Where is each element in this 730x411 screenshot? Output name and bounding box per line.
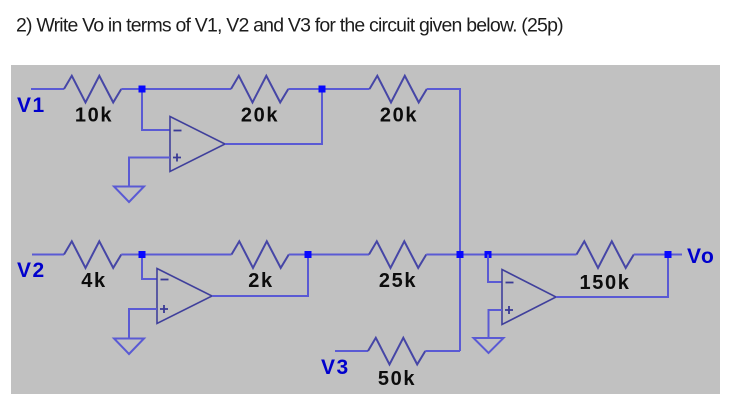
op-amp U3	[502, 270, 556, 325]
wire vertical bus down	[459, 88, 461, 351]
U3 plus sign	[505, 306, 513, 314]
wire U3 inverting input	[488, 255, 502, 283]
ground G3	[474, 338, 504, 353]
node2b junction	[305, 251, 312, 258]
resistor R2 20k feedback	[231, 76, 288, 103]
U2 minus sign	[161, 279, 169, 281]
wire R7 to output node	[634, 254, 682, 256]
node1b junction	[139, 251, 146, 258]
wire U2 output to node2b	[212, 255, 308, 297]
op-amp U1	[170, 117, 225, 172]
wire U1 non-inverting to ground	[129, 158, 170, 187]
node2a junction	[319, 86, 326, 93]
svg-text:25k: 25k	[379, 270, 417, 292]
node B feedback junction	[485, 251, 492, 258]
resistor R7 150k feedback	[577, 241, 634, 268]
svg-text:20k: 20k	[380, 105, 418, 127]
wire U2 non-inverting to ground	[129, 309, 157, 339]
wire V3 lead	[335, 350, 368, 352]
svg-text:2) Write Vo in terms of V1, V2: 2) Write Vo in terms of V1, V2 and V3 fo…	[16, 15, 563, 37]
node1a junction	[139, 86, 146, 93]
wire R6 to summing node	[426, 254, 576, 256]
svg-text:V3: V3	[321, 356, 350, 379]
U1 minus sign	[174, 130, 182, 132]
svg-text:V2: V2	[17, 259, 46, 282]
wire R1 to node1a	[121, 88, 231, 90]
wire U1 inverting input	[142, 89, 170, 130]
wire node2a span	[288, 88, 369, 90]
wire V1 lead	[31, 88, 64, 90]
wire R4 to node1b	[121, 254, 231, 256]
wire node2b span	[289, 254, 369, 256]
wire V2 lead	[32, 254, 64, 256]
ground G2	[114, 339, 144, 355]
wire U3 output to node Vo	[556, 255, 668, 298]
svg-text:Vo: Vo	[687, 245, 715, 268]
resistor R5 2k feedback	[232, 241, 289, 268]
svg-text:50k: 50k	[378, 368, 416, 390]
svg-text:2k: 2k	[248, 270, 273, 292]
wire U2 inverting input	[142, 255, 157, 280]
resistor R4 4k	[64, 241, 121, 268]
U1 plus sign	[173, 154, 181, 162]
svg-text:V1: V1	[17, 94, 46, 117]
resistor R3 20k	[370, 76, 427, 103]
svg-text:4k: 4k	[81, 270, 106, 292]
wire R8 to vertical bus	[425, 350, 460, 352]
op-amp U2	[157, 269, 212, 324]
svg-text:20k: 20k	[241, 105, 279, 127]
resistor R6 25k	[369, 241, 426, 268]
U2 plus sign	[160, 305, 168, 313]
wire R3 to vertical bus	[427, 88, 460, 90]
ground G1	[114, 187, 144, 203]
svg-text:10k: 10k	[75, 105, 113, 127]
schematic gray background	[11, 65, 720, 394]
wire U1 output to node2a	[225, 89, 322, 144]
wire U3 non-inverting to ground	[489, 310, 503, 338]
node A summing junction	[457, 251, 464, 258]
U3 minus sign	[506, 282, 514, 284]
resistor R1 10k	[64, 76, 121, 103]
node Vo junction	[665, 251, 672, 258]
resistor R8 50k	[368, 338, 425, 365]
svg-text:150k: 150k	[580, 272, 631, 294]
